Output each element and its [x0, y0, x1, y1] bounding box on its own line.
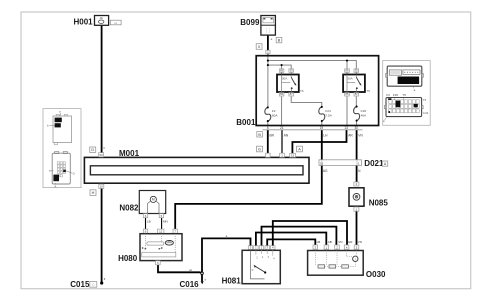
svg-text:G: G — [258, 148, 261, 152]
svg-text:50: 50 — [100, 153, 104, 157]
svg-text:a2: a2 — [189, 268, 193, 272]
svg-text:B099: B099 — [240, 18, 260, 27]
svg-text:T5: T5 — [366, 89, 370, 93]
svg-text:N082: N082 — [119, 203, 139, 212]
svg-text:19: 19 — [320, 126, 324, 130]
svg-text:21: 21 — [280, 126, 284, 130]
svg-text:H080: H080 — [118, 254, 138, 263]
svg-text:H001: H001 — [73, 17, 93, 26]
svg-text:M001: M001 — [119, 149, 140, 158]
svg-text:MN: MN — [163, 220, 168, 224]
svg-text:VN: VN — [338, 240, 342, 244]
svg-text:7.5A: 7.5A — [325, 113, 332, 117]
svg-text:VN: VN — [358, 240, 362, 244]
svg-text:H081: H081 — [222, 277, 242, 286]
svg-text:N085: N085 — [369, 199, 389, 208]
svg-text:12: 12 — [159, 229, 163, 233]
svg-text:T6: T6 — [300, 89, 304, 93]
svg-text:D021: D021 — [364, 159, 384, 168]
svg-text:15: 15 — [320, 161, 324, 165]
svg-text:C015: C015 — [70, 280, 90, 289]
svg-text:C: C — [92, 283, 95, 287]
svg-text:F24: F24 — [423, 111, 428, 115]
svg-text:60A: 60A — [272, 113, 278, 117]
svg-text:BR: BR — [270, 134, 275, 138]
svg-text:LH: LH — [323, 134, 328, 138]
svg-text:B001: B001 — [236, 118, 256, 127]
svg-text:10: 10 — [100, 185, 104, 189]
svg-text:a1: a1 — [114, 21, 118, 25]
svg-text:F18: F18 — [393, 93, 399, 97]
svg-text:A: A — [54, 184, 56, 188]
svg-text:N: N — [103, 146, 105, 150]
svg-text:30A: 30A — [347, 77, 352, 81]
svg-text:LB: LB — [147, 220, 151, 224]
svg-text:B: B — [278, 39, 281, 43]
svg-text:F2: F2 — [386, 93, 390, 97]
svg-text:O030: O030 — [366, 270, 386, 279]
svg-text:LB: LB — [317, 240, 321, 244]
svg-text:6: 6 — [267, 126, 269, 130]
svg-text:AR: AR — [348, 134, 353, 138]
svg-text:H: H — [92, 191, 95, 195]
svg-text:M: M — [152, 198, 155, 202]
svg-text:D: D — [91, 148, 94, 152]
svg-text:T5: T5 — [402, 93, 406, 97]
svg-text:13: 13 — [344, 126, 348, 130]
svg-text:AN: AN — [284, 134, 289, 138]
svg-text:40A: 40A — [361, 113, 367, 117]
svg-text:A: A — [298, 148, 301, 152]
svg-text:15: 15 — [291, 153, 295, 157]
svg-text:C016: C016 — [179, 280, 199, 289]
svg-text:VN: VN — [358, 134, 363, 138]
svg-text:AB: AB — [328, 240, 332, 244]
svg-text:T6: T6 — [423, 98, 427, 102]
svg-text:30A: 30A — [282, 77, 287, 81]
svg-text:AG: AG — [323, 169, 328, 173]
svg-text:30: 30 — [355, 126, 359, 130]
